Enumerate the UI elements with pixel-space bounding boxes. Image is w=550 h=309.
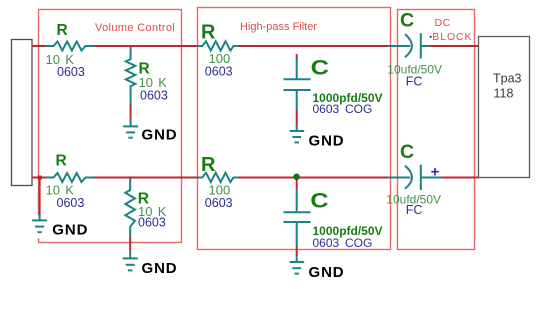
svg-text:R: R: [56, 153, 67, 170]
svg-text:GND: GND: [309, 132, 345, 149]
svg-text:R: R: [201, 154, 216, 176]
svg-text:R: R: [201, 22, 216, 44]
svg-text:C: C: [311, 55, 329, 79]
svg-text:0603: 0603: [140, 88, 168, 102]
svg-text:Tpa3: Tpa3: [493, 72, 522, 86]
svg-text:BLOCK: BLOCK: [432, 31, 472, 43]
svg-text:GND: GND: [142, 127, 178, 144]
svg-text:C: C: [400, 141, 414, 163]
svg-text:FC: FC: [406, 203, 423, 217]
svg-text:118: 118: [494, 87, 514, 101]
svg-text:GND: GND: [142, 260, 178, 277]
svg-text:GND: GND: [309, 264, 345, 281]
svg-text:FC: FC: [406, 74, 423, 88]
svg-text:R: R: [57, 22, 68, 39]
svg-text:High-pass Filter: High-pass Filter: [240, 21, 317, 33]
svg-text:Volume Control: Volume Control: [95, 22, 175, 34]
svg-text:+: +: [431, 163, 440, 180]
svg-text:DC: DC: [435, 17, 451, 29]
svg-text:0603: 0603: [138, 216, 166, 230]
svg-text:0603: 0603: [57, 65, 85, 79]
svg-text:GND: GND: [52, 222, 88, 239]
svg-text:0603: 0603: [57, 196, 85, 210]
svg-text:C: C: [400, 9, 414, 31]
svg-text:0603: 0603: [205, 196, 233, 210]
svg-text:0603: 0603: [205, 65, 233, 79]
svg-text:C: C: [310, 188, 328, 212]
